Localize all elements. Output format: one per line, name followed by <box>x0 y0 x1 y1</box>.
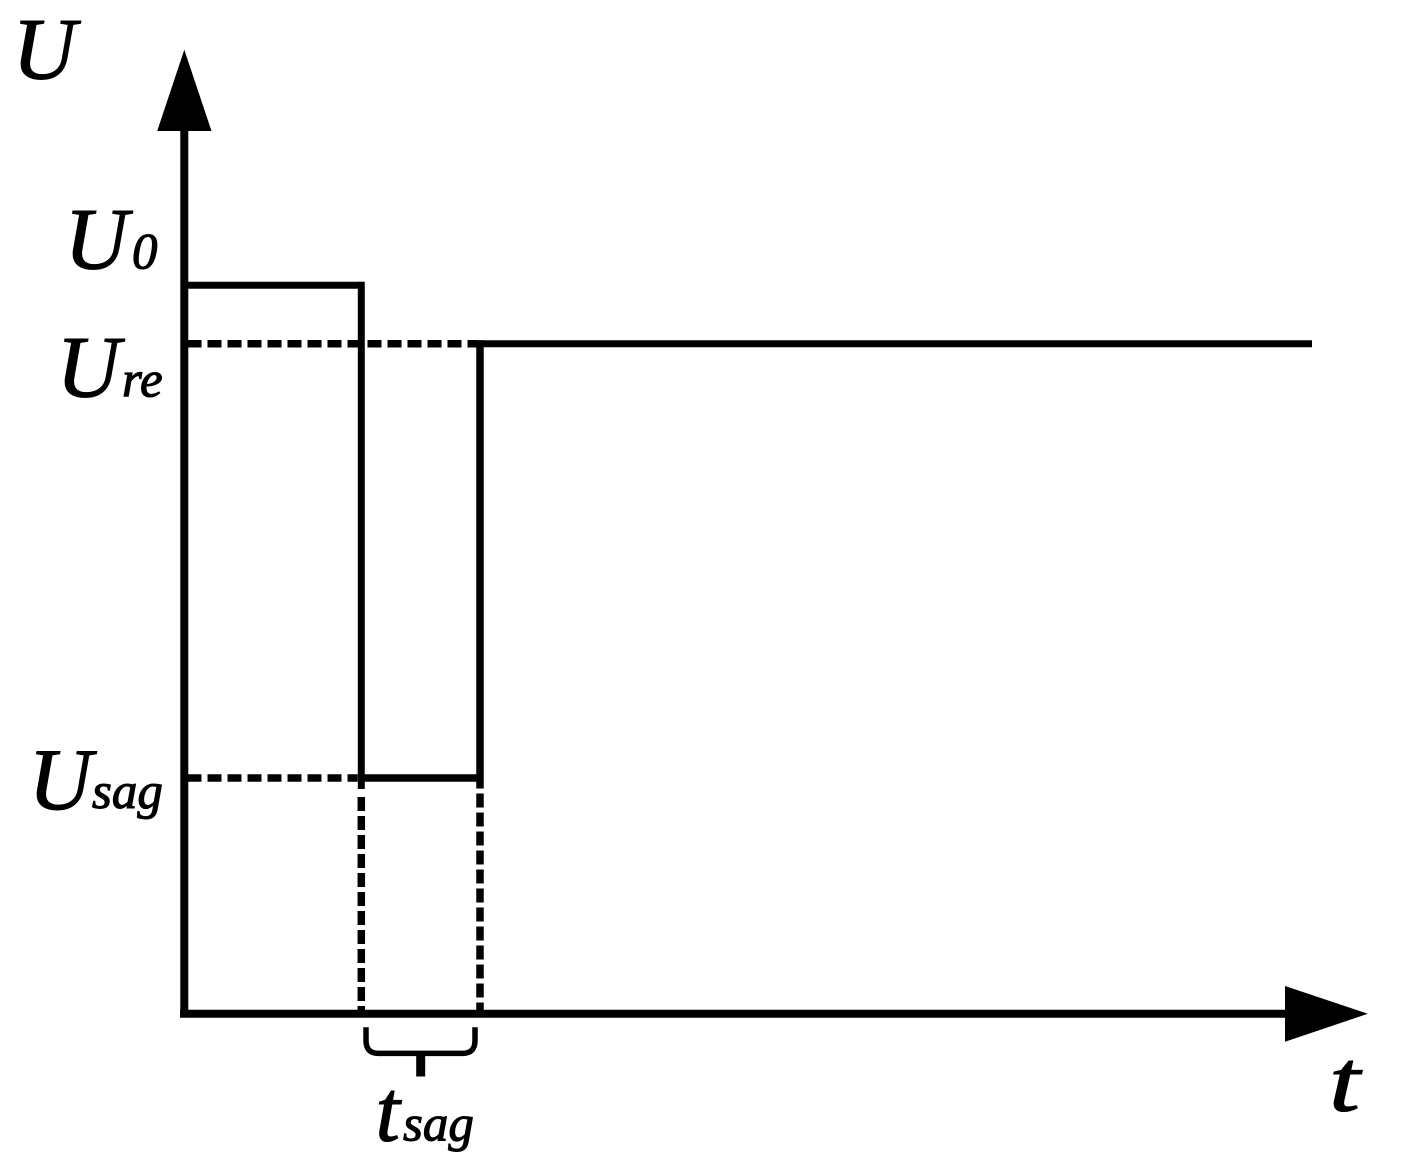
svg-text:0: 0 <box>132 225 158 281</box>
svg-text:sag: sag <box>403 1097 474 1153</box>
svg-text:sag: sag <box>92 764 163 820</box>
svg-text:U: U <box>29 732 98 829</box>
svg-text:U: U <box>57 320 126 417</box>
svg-text:t: t <box>376 1064 403 1161</box>
svg-text:U: U <box>65 192 134 289</box>
svg-text:re: re <box>122 353 163 409</box>
svg-text:t: t <box>1329 1034 1363 1131</box>
svg-text:U: U <box>13 2 82 99</box>
